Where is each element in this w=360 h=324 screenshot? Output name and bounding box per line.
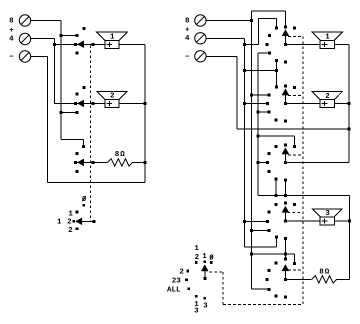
svg-text:−: − — [9, 54, 14, 62]
wire: right speaker-1 feed — [286, 43, 321, 45]
wire: bus stub to section 2 pos-13 contact — [258, 111, 269, 113]
contact dot: right section 5 pos-23 contact — [266, 278, 269, 281]
wire: right speaker-3 feed — [285, 220, 320, 222]
contact dot: right section 3 pos-2 contact — [268, 152, 271, 155]
wire: left speaker-1 feed line — [54, 43, 105, 45]
junction: bus at section 3 upper elbow — [257, 135, 260, 138]
terminal: left amplifier 8-ohm tap — [19, 15, 30, 26]
mechanical linkage (dashed, section 5) — [288, 269, 303, 271]
speaker SP1 (left) — [97, 32, 127, 48]
contact dot: right legend pos-all — [188, 288, 191, 291]
junction: bus at section 2 stub — [257, 111, 260, 114]
wire: left speaker-2 return — [119, 102, 145, 104]
wire: right lower return vertical — [349, 195, 351, 279]
contact dot: right section 2 pos-23 contact — [266, 102, 269, 105]
mechanical linkage (dashed, right vertical) — [302, 36, 304, 304]
junction: right T1 at section 4 stub — [250, 229, 253, 232]
junction: right section 4 wiper pivot — [284, 219, 287, 222]
wire: right section 2 wiper shaft — [285, 94, 287, 103]
switch wiper arrow: right section 1 — [282, 30, 289, 36]
contact dot: right legend pos-2 — [187, 270, 190, 273]
contact dot: right section 4 pos-12 contact — [275, 203, 278, 206]
wire: left resistor to return bus — [133, 161, 145, 163]
wire: riser to section 3 pos-all contact — [275, 179, 277, 195]
contact dot: right section 2 pos-all contact — [275, 118, 278, 121]
contact dot: right section 3 pos-12 contact — [275, 145, 278, 148]
contact dot: right legend pos-0 — [210, 261, 213, 264]
wire: bus elbow horizontal to section 3 pos-0 — [258, 135, 294, 137]
svg-text:2: 2 — [195, 254, 200, 262]
contact dot: right section 5 pos-3 contact — [284, 296, 287, 299]
wire: stub up to section 1 pos-all contact — [275, 61, 277, 71]
wire: right resistor feed — [285, 278, 311, 280]
terminal: right amplifier 8-ohm tap — [195, 15, 206, 26]
contact dot: right section 5 pos-2 contact — [268, 269, 271, 272]
contact dot: right section 1 pos-13 contact — [268, 52, 271, 55]
terminal: left amplifier minus — [19, 51, 30, 62]
switch wiper arrow: left legend — [76, 218, 82, 225]
speaker SP3 (right) — [312, 209, 342, 225]
junction: speaker 2 return at bus — [348, 102, 351, 105]
svg-text:2: 2 — [67, 219, 72, 227]
contact dot: left legend pos-1 — [76, 211, 79, 214]
junction: left speaker-2 return at bus — [144, 102, 147, 105]
wire: right section 4 wiper shaft — [284, 212, 286, 221]
svg-text:+: + — [9, 27, 14, 35]
wire: drop to section 5 pos-0 contact — [294, 254, 296, 263]
contact dot: right section 2 pos-2 contact — [268, 94, 271, 97]
wire: section 3 pivot line to return bus — [285, 162, 349, 164]
junction: right T2 at section 2 feed — [243, 102, 246, 105]
svg-text:8Ω: 8Ω — [319, 268, 330, 276]
contact dot: right section 5 pos-13 contact — [268, 288, 271, 291]
wire: right legend wiper shaft — [204, 270, 206, 278]
mechanical linkage (dashed, section 4) — [287, 212, 303, 214]
svg-text:8: 8 — [9, 17, 14, 25]
junction: left T2 to speaker-1 line — [53, 43, 56, 46]
contact dot: right section 5 pos-12 contact — [275, 262, 278, 265]
contact dot: left legend selected pos-12 — [72, 220, 75, 223]
wire: left 8-ohm tap to bus T1 — [31, 19, 61, 21]
contact dot: right section 1 pos-1 contact (selected) — [284, 25, 287, 28]
contact dot: right section 4 pos-23 contact — [266, 220, 269, 223]
speaker SP1 (right) — [312, 32, 342, 48]
pivot dot: right legend wiper pivot — [203, 277, 206, 280]
contact dot: right section 5 pos-0 contact — [293, 262, 296, 265]
mechanical linkage (dashed, bottom horizontal) — [223, 304, 303, 306]
switch wiper arrow: right section 2 — [282, 89, 289, 95]
contact dot: left section A pos-0 contact — [83, 27, 86, 30]
svg-text:2: 2 — [110, 93, 115, 101]
resistor R2 8-ohm (right) — [312, 276, 337, 283]
wire: right T1 top elbow — [251, 10, 285, 12]
contact dot: right legend pos-23 — [185, 279, 188, 282]
junction: right section 2 wiper pivot — [284, 102, 287, 105]
wire: right 8-ohm tap lead — [206, 19, 251, 21]
junction: bus bottom at riser 2 — [284, 194, 287, 197]
contact dot: right section 3 pos-all contact — [275, 178, 278, 181]
contact dot: left section C pos-0 contact (fed) — [82, 145, 85, 148]
junction: right T1 at 8-ohm lead — [250, 19, 253, 22]
mechanical linkage (dashed, legend riser) — [222, 272, 224, 305]
contact dot: right section 1 pos-3 contact — [284, 60, 287, 63]
wire: bus elbow drop to section 3 pos-0 — [293, 136, 295, 146]
wire: right resistor to return vertical — [337, 278, 350, 280]
wire: left T2 vertical bus — [53, 39, 55, 104]
pivot dot: left legend wiper pivot — [92, 220, 95, 223]
switch wiper arrow: left section B — [78, 100, 84, 107]
wire: right T3 horizontal to return bus — [237, 128, 349, 130]
contact dot: right section 3 pos-3 contact — [284, 179, 287, 182]
wire: bus bottom horizontal — [258, 194, 349, 196]
wire: left right-side return bus — [144, 44, 146, 182]
wire: right T1 stub to section 2 pos-2 contact — [251, 94, 269, 96]
contact dot: right section 1 pos-12 contact — [275, 27, 278, 30]
junction: right section 1 wiper pivot — [284, 43, 287, 46]
contact dot: right legend pos-3 — [204, 297, 207, 300]
wire: right T2 inner-U vertical — [258, 18, 260, 44]
svg-text:4: 4 — [9, 36, 14, 44]
junction: left T1 at section B stub — [60, 111, 63, 114]
wire: right T1 vertical bus — [250, 11, 252, 289]
wire: right section 3 wiper shaft — [284, 153, 286, 162]
contact dot: right section 4 pos-1 contact — [284, 202, 287, 205]
svg-text:8Ω: 8Ω — [115, 151, 126, 159]
pivot dot: left section C wiper pivot — [91, 161, 94, 164]
wire: left speaker-2 feed line — [54, 102, 105, 104]
wire: section 4 pos-3 to section 5 pos-1 link — [284, 238, 286, 259]
junction: right T3 at return bus — [348, 127, 351, 130]
svg-text:1: 1 — [110, 34, 115, 42]
wire: right T2 bottom elbow — [244, 246, 276, 248]
wire: right T2 inner-U horizontal upper — [259, 17, 277, 19]
wire: left T1 bottom elbow horizontal — [61, 139, 83, 141]
contact dot: left section B pos-0 contact — [83, 86, 86, 89]
wire: left minus vertical bus — [47, 57, 49, 183]
svg-text:1: 1 — [57, 219, 62, 227]
contact dot: left section A pos-2 contact — [76, 52, 79, 55]
svg-text:8: 8 — [185, 17, 190, 25]
wire: right T2 inner-U horizontal lower — [244, 44, 258, 46]
wire: stub down to section 2 pos-12 contact — [275, 70, 277, 87]
junction: right inter-section bus end — [275, 69, 278, 72]
wire: left T1 vertical bus — [60, 20, 62, 139]
svg-text:−: − — [185, 53, 190, 61]
contact dot: left section B pos-2 contact — [76, 111, 79, 114]
speaker SP2 (left) — [97, 91, 127, 107]
wire: right section 5 wiper shaft — [284, 270, 286, 279]
contact dot: left section B pos-1 contact — [76, 93, 79, 96]
contact dot: left section A pos-1 contact — [76, 34, 79, 37]
contact dot: right legend pos-13 — [195, 295, 198, 298]
contact dot: right section 1 pos-all contact — [275, 59, 278, 62]
wire: right T2 riser to section 4 pos-all contact — [276, 237, 278, 247]
wire: right T1 drop to section 1 top contact — [285, 11, 287, 27]
contact dot: right section 1 pos-23 contact — [266, 43, 269, 46]
wire: right minus terminal lead — [206, 55, 237, 57]
svg-text:1: 1 — [194, 245, 199, 253]
wire: right T1 lower horizontal — [251, 253, 294, 255]
pivot dot: left section A wiper pivot — [91, 43, 94, 46]
junction: right section 3 wiper pivot — [284, 161, 287, 164]
svg-text:4: 4 — [185, 35, 190, 43]
mechanical linkage (dashed, section 3) — [288, 154, 303, 156]
svg-text:1: 1 — [202, 253, 207, 261]
wire: right T2 vertical bus — [243, 38, 245, 247]
wire: right T2 inner-U drop — [275, 18, 277, 28]
wire: right upper return bus vertical — [348, 44, 350, 162]
svg-text:3: 3 — [203, 303, 208, 311]
svg-text:2: 2 — [68, 227, 73, 235]
junction: right T1 at section 2 stub — [250, 94, 253, 97]
svg-text:3: 3 — [194, 308, 199, 316]
wire: left bottom return bus — [48, 181, 145, 183]
contact dot: left section C selected contact — [74, 161, 77, 164]
svg-text:3: 3 — [325, 210, 330, 218]
wire: bus stub to section 3 pos-23 contact — [258, 162, 267, 164]
svg-text:1: 1 — [68, 210, 73, 218]
contact dot: right section 3 pos-23 contact — [266, 161, 269, 164]
contact dot: left section C pos-1 contact — [76, 152, 79, 155]
switch wiper arrow: right section 4 — [282, 206, 289, 212]
wire: left speaker-1 return — [119, 43, 145, 45]
wire: left T1 stub to switch section A top contact — [61, 34, 77, 36]
junction: link crosses T1 lower horizontal — [284, 253, 287, 256]
contact dot: right section 2 pos-13 contact — [268, 111, 271, 114]
contact dot: right section 1 pos-2 contact — [268, 34, 271, 37]
wire: right T1 stub to section 4 pos-13 contact — [251, 229, 269, 231]
wire: right T3 vertical — [236, 56, 238, 129]
resistor R1 8-ohm (left) — [108, 159, 133, 166]
contact dot: left section B selected contact — [74, 102, 77, 105]
terminal: right amplifier 4-ohm tap — [195, 33, 206, 44]
wire: right T2 stub to section 2 pos-23 contact — [244, 103, 267, 105]
wire: left T1 stub to section B bottom contact — [61, 111, 77, 113]
switch wiper arrow: right section 5 — [282, 265, 289, 271]
wire: bus stub to section 1 pos-13 contact — [258, 52, 269, 54]
contact dot: right section 2 pos-3 contact — [284, 120, 287, 123]
junction: right section 5 wiper pivot — [284, 278, 287, 281]
svg-text:+: + — [185, 27, 190, 35]
contact dot: right section 3 pos-13 contact — [268, 170, 271, 173]
svg-text:2: 2 — [179, 269, 184, 277]
contact dot: right section 4 pos-2 contact — [268, 210, 271, 213]
switch wiper arrow: left section C — [78, 159, 84, 166]
contact dot: right section 5 pos-all contact — [275, 294, 278, 297]
wire: right speaker-2 return — [334, 103, 349, 105]
contact dot: left legend pos-0 — [82, 204, 85, 207]
wire: left T1 bottom elbow vertical — [82, 140, 84, 147]
label 0 (left legend position 0) — [82, 196, 87, 204]
mechanical linkage (dashed, section 1) — [288, 35, 303, 37]
mechanical linkage (dashed, left) — [89, 46, 91, 222]
switch wiper arrow: right legend — [201, 265, 208, 271]
contact dot: left legend pos-2 — [76, 227, 79, 230]
speaker SP2 (right) — [312, 91, 342, 107]
wire: left resistor line — [76, 161, 108, 163]
wire: right 4-ohm tap lead — [206, 37, 244, 39]
contact dot: right section 4 pos-3 contact — [284, 237, 287, 240]
junction: right T1 at lower horizontal — [250, 253, 253, 256]
junction: bus at section 3 pos-23 stub — [257, 161, 260, 164]
contact dot: left section A selected contact — [74, 43, 77, 46]
junction: right T2 at y70 bus — [243, 69, 246, 72]
contact dot: left section C pos-2 contact — [76, 170, 79, 173]
terminal: left amplifier 4-ohm tap — [19, 33, 30, 44]
junction: speaker 3 return at vertical — [348, 219, 351, 222]
switch wiper arrow: right section 3 — [282, 148, 289, 154]
wire: right speaker-2 feed — [286, 103, 321, 105]
pivot dot: left section B wiper pivot — [91, 102, 94, 105]
junction: right T2 inner-U takeoff — [243, 43, 246, 46]
wire: right commoning bus vertical — [257, 53, 259, 195]
terminal: right amplifier minus — [195, 51, 206, 62]
label 0 (right legend pos 0) — [209, 255, 214, 263]
wire: riser to section 3 pos-3 contact — [284, 180, 286, 195]
contact dot: right section 2 pos-1 contact — [284, 85, 287, 88]
contact dot: right section 1 pos-0 contact — [293, 27, 296, 30]
contact dot: right legend pos-12 — [195, 261, 198, 264]
contact dot: right section 5 pos-1 contact (fed) — [284, 257, 287, 260]
mechanical linkage (dashed, section 2) — [288, 94, 303, 96]
contact dot: right section 4 pos-13 contact — [268, 229, 271, 232]
wire: left 4-ohm tap to bus T2 — [31, 38, 55, 40]
wire: right speaker-3 return — [334, 220, 349, 222]
contact dot: right section 4 pos-0 contact — [293, 203, 296, 206]
junction: left resistor at return bus — [144, 161, 147, 164]
wire: right T1 bottom elbow to section 5 — [251, 288, 269, 290]
wire: right section 1 wiper shaft — [285, 35, 287, 44]
wire: right T2 bus to inter-section contacts — [244, 69, 276, 71]
junction: right T2 at section 4 feed — [243, 220, 246, 223]
switch wiper arrow: left section A — [78, 41, 84, 48]
svg-text:1: 1 — [325, 34, 330, 42]
wire: right speaker-1 return — [334, 43, 349, 45]
mechanical linkage (dashed, to legend) — [210, 271, 224, 273]
contact dot: right section 2 pos-12 contact — [275, 86, 278, 89]
contact dot: right section 4 pos-all contact — [275, 235, 278, 238]
junction: bus bottom at riser 1 — [275, 194, 278, 197]
contact dot: right legend pos-1 (selected) — [204, 260, 207, 263]
svg-text:23: 23 — [172, 277, 182, 285]
svg-text:ALL: ALL — [167, 287, 181, 295]
contact dot: right section 2 pos-0 contact — [293, 86, 296, 89]
wire: right T2 stub to section 4 pos-23 contact — [244, 220, 267, 222]
contact dot: right section 3 pos-0 contact — [293, 145, 296, 148]
wire: left minus terminal lead — [31, 56, 48, 58]
contact dot: right section 3 pos-1 contact — [284, 143, 287, 146]
wire: left legend wiper shaft — [81, 220, 94, 222]
svg-text:2: 2 — [325, 93, 330, 101]
junction: left T1 stub — [60, 34, 63, 37]
